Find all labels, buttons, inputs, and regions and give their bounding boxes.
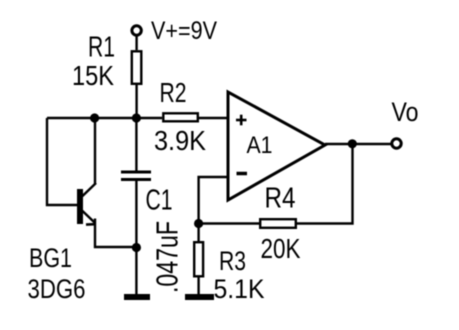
node collector junction [90,113,99,122]
svg-text:R1: R1 [88,32,115,64]
svg-text:.047uF: .047uF [150,221,185,293]
svg-text:15K: 15K [72,60,114,91]
node emitter/C1 junction [132,243,141,252]
svg-text:5.1K: 5.1K [214,274,265,304]
wire feedback left [199,222,259,224]
wire op-amp output [325,143,392,145]
ground below R3 [185,294,214,300]
wire top rail [47,117,162,119]
wire R2 to op-amp [199,117,228,119]
svg-text:R3: R3 [219,246,246,276]
node R1/C1 junction [132,113,141,122]
svg-text:3.9K: 3.9K [154,125,206,156]
svg-text:C1: C1 [146,185,173,217]
resistor R4 [260,219,296,228]
svg-text:R4: R4 [265,183,296,215]
svg-text:BG1: BG1 [29,243,72,273]
op-amp A1 [228,92,325,200]
wire feedback right [297,144,353,224]
svg-text:V+=9V: V+=9V [151,17,217,45]
resistor R2 [163,113,198,121]
wire R1 to node [135,85,137,118]
svg-text:A1: A1 [247,132,273,159]
svg-text:Vo: Vo [392,97,419,127]
svg-text:20K: 20K [261,233,301,264]
svg-text:R2: R2 [160,77,187,108]
wire inverting input [199,177,228,224]
output terminal Vo [392,139,401,148]
svg-text:3DG6: 3DG6 [28,274,86,304]
transistor BG1 [77,118,136,247]
wire V+ to R1 [135,35,137,50]
power terminal V+ [132,26,141,35]
resistor R1 [132,51,142,84]
capacitor C1 [121,118,151,294]
ground below C1 [124,294,150,300]
node feedback junction [194,219,203,228]
resistor R3 [194,224,203,295]
node output junction [348,139,357,148]
wire left branch down [47,118,77,205]
